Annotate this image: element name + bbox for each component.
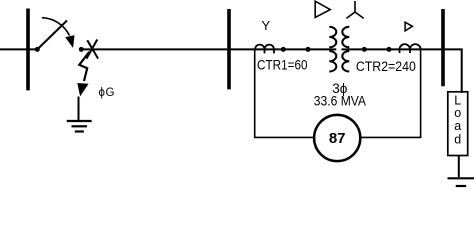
wire: CT1 secondary down to relay: [255, 49, 313, 137]
node after switch: [79, 47, 84, 52]
wire: CT2 secondary down to relay: [362, 49, 421, 137]
wire: load box to ground: [458, 156, 460, 178]
node A: [281, 47, 286, 52]
switch opening arc arrow: [42, 18, 70, 36]
ground 1 (fault ground): [78, 97, 80, 122]
svg-text:CTR1=60: CTR1=60: [257, 57, 308, 73]
relay 87 (differential relay): [314, 115, 360, 161]
node D: [387, 47, 392, 52]
CT1 (current transformer, wye side): [255, 45, 274, 54]
svg-text:d: d: [454, 132, 461, 146]
transformer T1 secondary winding: [342, 27, 349, 72]
delta symbol (transformer primary winding config): [315, 1, 330, 17]
wire: switch node to transformer primary: [81, 48, 336, 50]
bus 3 (right bus): [441, 9, 445, 86]
svg-text:33.6 MVA: 33.6 MVA: [314, 94, 366, 109]
fault X at node: [87, 40, 99, 59]
fault current arrow (lightning bolt): [79, 52, 89, 81]
svg-text:CTR2=240: CTR2=240: [356, 58, 416, 74]
svg-text:Y: Y: [262, 18, 271, 33]
breaker hinge node: [35, 47, 40, 52]
node C: [362, 47, 367, 52]
wye symbol (transformer secondary winding config): [346, 1, 363, 18]
wire: transformer secondary to load corner: [342, 49, 462, 93]
CT2 (current transformer, delta side): [400, 44, 421, 53]
bus 2 (middle bus): [227, 9, 231, 89]
delta symbol (delta CT connection): [405, 22, 412, 31]
svg-text:a: a: [454, 119, 461, 133]
load box: [448, 92, 468, 156]
bus 1 (left bus): [26, 9, 30, 91]
transformer T1 primary winding: [329, 27, 336, 72]
node B: [306, 47, 311, 52]
disconnect switch blade (open): [37, 21, 67, 50]
ground 2 (load ground): [448, 177, 474, 179]
svg-text:87: 87: [329, 130, 346, 147]
svg-text:ϕG: ϕG: [99, 87, 116, 99]
wire: source line into bus 1: [0, 48, 37, 50]
